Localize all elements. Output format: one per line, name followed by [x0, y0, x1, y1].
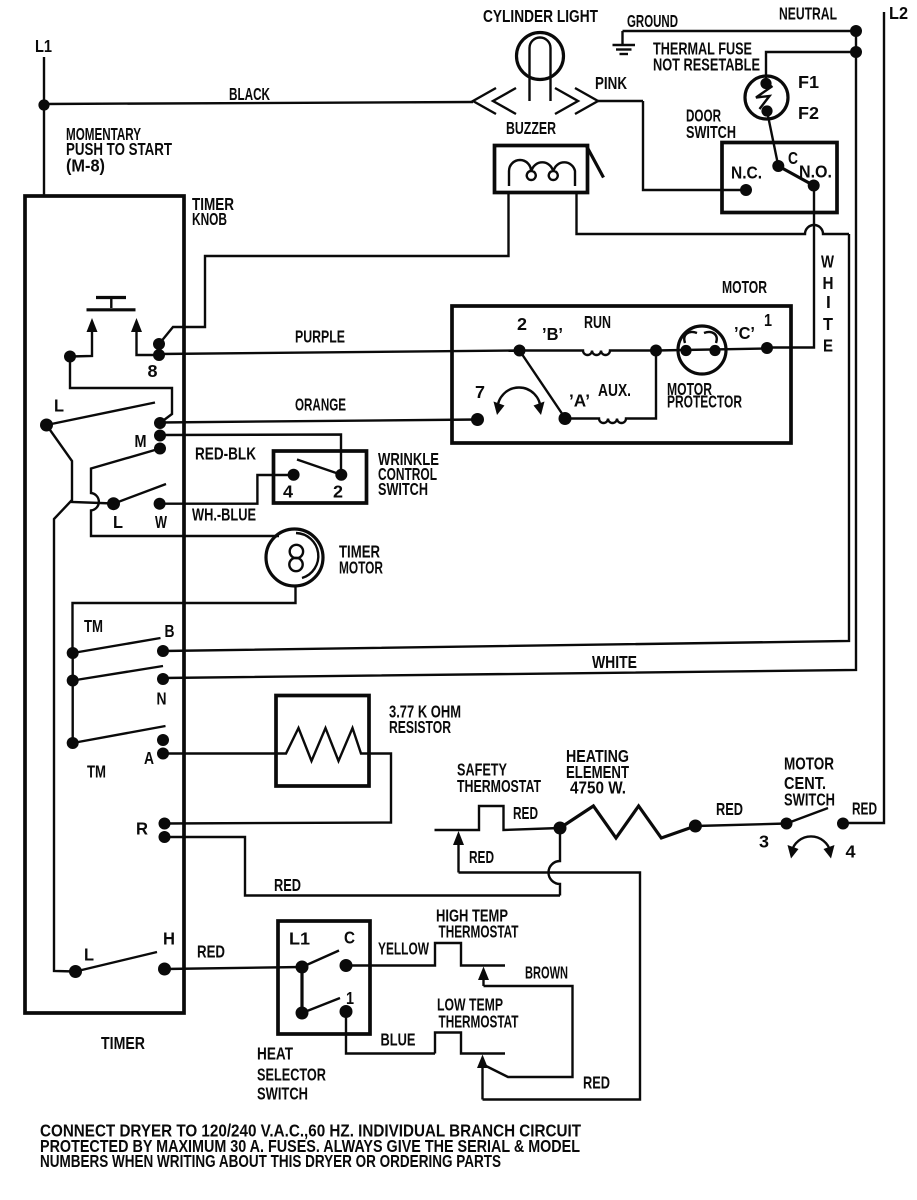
svg-text:RUN: RUN — [584, 312, 611, 332]
svg-text:L: L — [54, 396, 64, 416]
wrinkle switch contact 2 — [335, 469, 347, 481]
svg-text:TM: TM — [87, 762, 106, 782]
bottom H contact — [158, 963, 171, 976]
svg-text:SWITCH: SWITCH — [686, 122, 736, 142]
fuse F1-F2 thermal fuse — [745, 76, 788, 119]
lower W contact — [154, 498, 166, 510]
svg-text:SELECTOR: SELECTOR — [257, 1065, 326, 1085]
push-to-start button plunger — [87, 298, 136, 310]
motor cent switch label — [784, 754, 835, 810]
svg-text:SWITCH: SWITCH — [257, 1084, 308, 1104]
lamp CYLINDER LIGHT — [517, 33, 564, 102]
connector break chevrons left — [473, 88, 516, 114]
wrinkle control switch box — [274, 451, 367, 503]
wire TM1-TM2 link — [71, 653, 73, 681]
wire red-blk M to wrinkle 2 — [160, 435, 341, 476]
safety thermostat arrow — [453, 831, 464, 873]
svg-text:C: C — [788, 148, 798, 168]
junction heater right — [689, 820, 702, 833]
selector C contact — [340, 959, 353, 972]
wire resistor to R contact — [165, 754, 392, 824]
wire black L1 to lamp break — [44, 102, 473, 104]
cent switch travel arc arrows — [788, 836, 835, 858]
low temp red arrow — [477, 1055, 488, 1100]
svg-text:WHITE: WHITE — [592, 652, 637, 672]
svg-text:RED: RED — [469, 847, 494, 867]
svg-text:B: B — [165, 621, 175, 641]
junction heater left — [554, 822, 567, 835]
wire fuse feed from neutral — [766, 52, 856, 82]
wire L drop to lower L contact — [47, 425, 114, 504]
motor A contact — [559, 412, 572, 425]
wire lamp to pink corner — [598, 100, 643, 102]
wire orange M to motor 7 — [160, 420, 478, 423]
svg-text:H: H — [823, 273, 834, 293]
wire left contact to M — [70, 357, 172, 424]
svg-text:PINK: PINK — [595, 73, 627, 93]
svg-text:RED: RED — [197, 942, 225, 962]
wire red H to selector L1 — [165, 967, 303, 969]
heat selector switch label — [257, 1044, 326, 1104]
svg-text:’C’: ’C’ — [734, 323, 755, 343]
motor protector U1 — [656, 326, 767, 374]
wrinkle switch contact 4 — [288, 469, 300, 481]
svg-text:M: M — [135, 431, 147, 451]
contact TM2 — [67, 675, 79, 687]
svg-text:BROWN: BROWN — [525, 963, 568, 983]
node L dot — [40, 419, 53, 432]
svg-text:RED: RED — [513, 803, 538, 823]
svg-text:N: N — [157, 689, 167, 709]
wire L1 drop — [43, 57, 45, 196]
svg-text:L: L — [84, 945, 94, 965]
door switch NO contact — [808, 180, 820, 192]
arm TM3 to A — [73, 726, 166, 743]
svg-text:L: L — [113, 512, 123, 532]
terminal 8 contacts — [153, 338, 165, 350]
cent switch contact 3 — [781, 818, 793, 830]
wire neutral down to N contact — [163, 31, 856, 678]
wire wh-blue W to wrinkle 4 — [160, 475, 294, 504]
svg-text:4: 4 — [283, 482, 293, 502]
high temp thermostat S2 — [346, 943, 505, 966]
wire L1 to lower contact — [300, 967, 303, 1013]
svg-text:7: 7 — [475, 382, 485, 402]
contact A pair — [157, 734, 169, 760]
push-to-start arrow right — [131, 318, 159, 355]
svg-text:MOTOR: MOTOR — [722, 277, 767, 297]
svg-text:TIMER: TIMER — [101, 1033, 145, 1053]
arm lower L to W — [114, 484, 167, 504]
svg-text:’B’: ’B’ — [542, 324, 563, 344]
svg-text:4: 4 — [846, 842, 856, 862]
safety thermostat S1 — [435, 806, 561, 830]
ground symbol — [613, 31, 636, 54]
cent switch contact 4 — [837, 818, 849, 830]
svg-text:H: H — [163, 929, 175, 949]
wire neutral horizontal — [623, 30, 857, 32]
svg-text:T: T — [823, 314, 833, 334]
svg-text:THERMOSTAT: THERMOSTAT — [439, 922, 519, 942]
svg-text:THERMOSTAT: THERMOSTAT — [439, 1012, 519, 1032]
door switch box — [722, 143, 837, 213]
wire NO down to motor pin 1 — [767, 186, 814, 348]
svg-text:W: W — [155, 512, 168, 532]
svg-text:YELLOW: YELLOW — [378, 939, 430, 959]
svg-text:BLACK: BLACK — [229, 84, 270, 104]
junction L1/black — [38, 99, 49, 110]
junction neutral fuse tap — [850, 46, 862, 58]
svg-text:2: 2 — [517, 314, 527, 334]
svg-text:E: E — [823, 336, 833, 356]
svg-text:I: I — [826, 292, 831, 312]
wire white drop to B contact — [163, 234, 849, 651]
motor contact 1 — [761, 342, 773, 354]
wrinkle switch arm — [297, 460, 341, 475]
svg-text:TM: TM — [84, 616, 103, 636]
selector L1 contact — [296, 961, 309, 974]
svg-text:3: 3 — [759, 832, 769, 852]
selector arm lower to 1 — [302, 998, 340, 1013]
selector lower contact — [296, 1007, 309, 1020]
wrinkle control switch label — [378, 449, 439, 499]
arm L to H — [76, 952, 158, 972]
wire heater to cent switch 3 — [695, 824, 786, 827]
contact R pair — [159, 818, 171, 844]
svg-text:RED: RED — [583, 1073, 610, 1093]
svg-text:R: R — [136, 819, 149, 839]
svg-text:1: 1 — [764, 310, 772, 330]
motor run winding — [520, 351, 657, 356]
svg-text:RED-BLK: RED-BLK — [195, 444, 256, 464]
contact TM3 — [67, 737, 79, 749]
svg-text:KNOB: KNOB — [192, 209, 227, 229]
motor travel arc arrows — [494, 388, 545, 416]
connector break chevrons right — [555, 88, 598, 114]
cent switch arm — [787, 808, 829, 824]
door switch NC contact — [740, 184, 752, 196]
wire fuse to door switch C — [767, 111, 778, 166]
wire TM2-TM3 link — [71, 681, 73, 744]
svg-text:HEAT: HEAT — [257, 1044, 293, 1064]
buzzer striker arm — [587, 146, 604, 178]
svg-text:2: 2 — [333, 482, 343, 502]
contact B — [157, 645, 169, 657]
svg-text:1: 1 — [346, 988, 354, 1008]
svg-text:L2: L2 — [889, 3, 908, 23]
timer arm L to 8/M — [47, 403, 156, 426]
svg-text:NUMBERS WHEN WRITING ABOUT THI: NUMBERS WHEN WRITING ABOUT THIS DRYER OR… — [40, 1151, 501, 1171]
svg-text:RED: RED — [716, 799, 743, 819]
contact TM1 — [67, 647, 79, 659]
door switch arm C to NO — [778, 166, 813, 186]
svg-text:MOTOR: MOTOR — [784, 754, 834, 774]
heat selector switch box — [278, 921, 370, 1034]
timer box — [25, 196, 184, 1013]
low temp thermostat S3 — [435, 1033, 505, 1054]
buzzer BZ — [495, 146, 588, 193]
svg-text:F1: F1 — [798, 72, 819, 92]
svg-text:MOTOR: MOTOR — [339, 558, 383, 578]
svg-text:NEUTRAL: NEUTRAL — [779, 4, 837, 24]
svg-text:SWITCH: SWITCH — [378, 479, 428, 499]
wire A to resistor — [163, 752, 276, 754]
wire buzzer left to push-start 8 — [160, 193, 509, 344]
wire brown to low temp return — [484, 986, 573, 1077]
svg-text:RED: RED — [274, 875, 301, 895]
svg-text:BUZZER: BUZZER — [506, 118, 556, 138]
svg-text:ORANGE: ORANGE — [295, 395, 346, 415]
svg-text:L1: L1 — [35, 36, 52, 56]
svg-text:C: C — [344, 928, 355, 948]
wire L drop to bottom L contact — [54, 500, 76, 972]
svg-text:4750 W.: 4750 W. — [570, 778, 626, 798]
wire buzzer right to white drop — [577, 193, 850, 234]
svg-text:PROTECTOR: PROTECTOR — [667, 392, 742, 412]
wire pink drop to door switch NC — [643, 101, 746, 190]
resistor R1 zigzag — [276, 728, 369, 761]
svg-text:AUX.: AUX. — [598, 380, 631, 400]
selector arm L1 to C — [302, 951, 339, 968]
arm TM2 to N — [73, 666, 163, 681]
svg-text:L1: L1 — [289, 929, 310, 949]
svg-text:F2: F2 — [798, 103, 819, 123]
wire heater drop with hop — [549, 828, 561, 896]
junction motor centre — [650, 345, 662, 357]
svg-text:RESISTOR: RESISTOR — [389, 717, 451, 737]
net WHITE vertical label — [821, 252, 835, 356]
motor aux winding — [565, 351, 656, 424]
svg-text:RED: RED — [852, 799, 877, 819]
selector 1 contact — [340, 1005, 353, 1018]
arm TM1 to B — [73, 638, 161, 653]
svg-text:NOT RESETABLE: NOT RESETABLE — [653, 55, 760, 75]
svg-text:PURPLE: PURPLE — [295, 327, 345, 347]
contact N — [157, 673, 169, 685]
lower L contact — [107, 497, 120, 510]
door switch C contact — [772, 160, 784, 172]
wire L2 down to cent switch 4 — [843, 12, 884, 823]
timer arm M to timer motor with hop — [91, 449, 279, 537]
heating element HE zigzag — [560, 806, 695, 838]
bottom L contact — [69, 965, 82, 978]
push-to-start left contact — [64, 351, 76, 363]
svg-text:GROUND: GROUND — [627, 11, 678, 31]
svg-text:BLUE: BLUE — [381, 1030, 416, 1050]
svg-text:A: A — [144, 748, 154, 768]
high temp arrow — [478, 967, 489, 987]
wire red safety to low temp drop — [459, 873, 641, 1100]
svg-text:W: W — [821, 252, 835, 272]
wire blue selector 1 to low temp — [346, 1012, 435, 1054]
motor contact 7 — [471, 413, 484, 426]
resistor box — [276, 696, 369, 787]
wire timer motor to TM contact — [73, 586, 296, 653]
svg-text:N.C.: N.C. — [731, 163, 762, 183]
wire red R to heater junction — [165, 837, 561, 896]
push-to-start arrow left — [70, 318, 98, 357]
momentary push to start label — [66, 124, 172, 176]
svg-text:(M-8): (M-8) — [66, 156, 105, 176]
svg-text:8: 8 — [148, 361, 158, 381]
svg-text:THERMOSTAT: THERMOSTAT — [457, 776, 541, 796]
timer motor TM — [266, 529, 323, 586]
motor box — [452, 306, 791, 443]
wire purple 8 to motor 2 — [159, 351, 520, 355]
svg-text:WH.-BLUE: WH.-BLUE — [192, 505, 256, 525]
terminal M contacts — [154, 417, 166, 455]
motor arm 2 to A — [520, 351, 566, 419]
svg-text:SWITCH: SWITCH — [784, 790, 835, 810]
motor contact 2 — [514, 345, 526, 357]
svg-text:’A’: ’A’ — [569, 391, 590, 411]
svg-text:CYLINDER LIGHT: CYLINDER LIGHT — [483, 6, 598, 26]
junction neutral — [850, 25, 862, 37]
